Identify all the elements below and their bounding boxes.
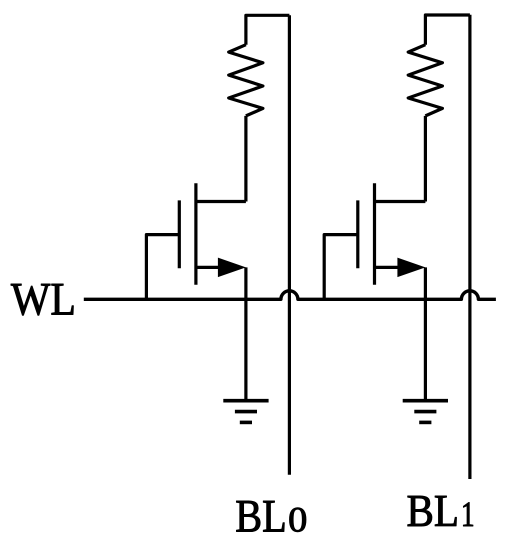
wire: VDD top connection cell 2 (resistor top to BL1) xyxy=(425,15,470,45)
wire BL0 (bit line 0) xyxy=(288,15,291,475)
svg-text:1: 1 xyxy=(461,494,475,534)
wire: resistor R2 bottom to M2 drain xyxy=(424,116,427,202)
wire: M2 source to ground, crossing WL xyxy=(424,267,427,400)
svg-text:0: 0 xyxy=(288,500,307,540)
transistor M1 xyxy=(179,183,246,285)
ground symbol cell 1 xyxy=(223,401,268,423)
wire: VDD top connection cell 1 (resistor top to BL0) xyxy=(246,15,290,44)
wire BL1 (bit line 1) xyxy=(468,15,471,479)
svg-text:WL: WL xyxy=(11,274,76,326)
wire: M1 source to ground, crossing WL xyxy=(244,267,247,400)
label BL1 xyxy=(407,486,475,536)
label BL0 xyxy=(235,490,307,542)
svg-text:BL: BL xyxy=(235,490,286,542)
wire: M1 gate to WL xyxy=(146,235,179,300)
svg-text:BL: BL xyxy=(407,486,460,536)
resistor R2 xyxy=(408,45,442,116)
wire: M2 gate to WL xyxy=(324,235,358,300)
transistor M2 xyxy=(358,183,426,285)
wire WL (word line with hops over BL0 and BL1) xyxy=(84,291,496,299)
resistor R1 xyxy=(229,45,263,116)
ground symbol cell 2 xyxy=(403,401,448,423)
wire: resistor R1 bottom to M1 drain xyxy=(244,116,247,202)
